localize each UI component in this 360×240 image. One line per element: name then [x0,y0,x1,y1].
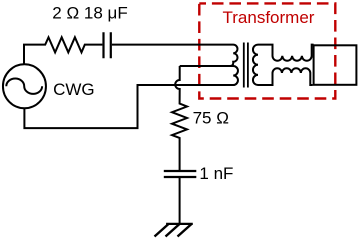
svg-text:2 Ω 18 μF: 2 Ω 18 μF [52,4,127,23]
svg-text:1 nF: 1 nF [199,164,233,183]
svg-text:CWG: CWG [53,80,95,99]
svg-text:Transformer: Transformer [223,8,315,27]
svg-text:75 Ω: 75 Ω [193,109,229,128]
